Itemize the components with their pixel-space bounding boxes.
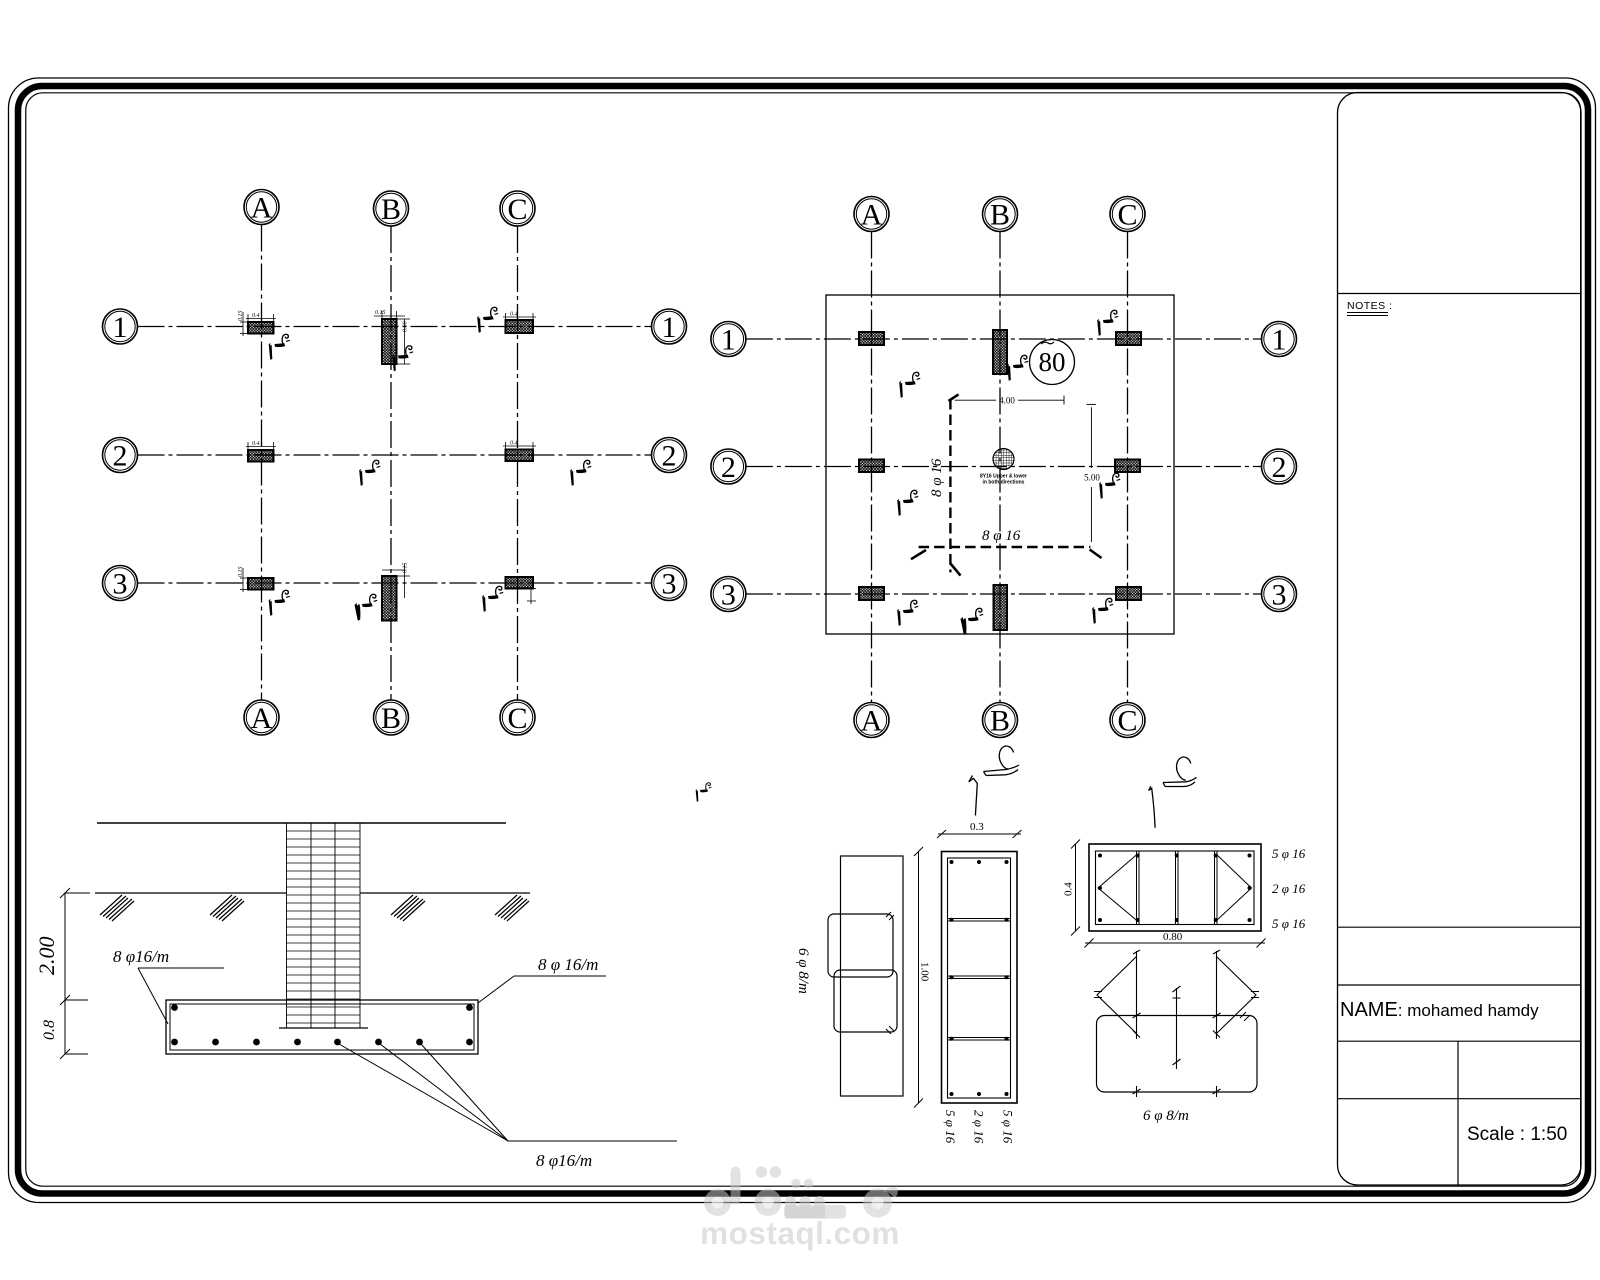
dim 0.4 above column A2 xyxy=(246,442,276,450)
detail bubble 80 xyxy=(1030,340,1075,385)
grid line 1 horizontal xyxy=(138,326,652,328)
watermark logo lam ring xyxy=(704,1189,731,1216)
section mark at B1 right plan xyxy=(1007,355,1028,380)
section mark at C3 xyxy=(482,586,503,611)
section mark at A2 right plan xyxy=(897,490,918,515)
svg-text:0.15: 0.15 xyxy=(403,563,409,574)
column section C1 stirrup xyxy=(1096,851,1255,925)
C1 divider 1 xyxy=(1136,851,1138,925)
svg-text:B: B xyxy=(381,702,401,735)
bubble 3 left xyxy=(103,566,138,601)
grid line C vertical right plan xyxy=(1127,232,1129,703)
svg-text:mostaql.com: mostaql.com xyxy=(700,1215,900,1251)
stirrup rounded rect upper xyxy=(828,914,893,977)
column A2 right plan xyxy=(859,460,884,473)
svg-text:NOTES :: NOTES : xyxy=(1347,300,1393,312)
unfolded stirrup triangle left xyxy=(1094,950,1140,1039)
column B1 left plan xyxy=(382,319,397,364)
grid line 3 horizontal right plan xyxy=(746,593,1262,595)
svg-text:1: 1 xyxy=(1272,324,1287,357)
footing outline inner xyxy=(170,1004,474,1050)
dimension line 2.00 / 0.8 xyxy=(60,888,90,1059)
column base line xyxy=(279,1027,368,1029)
section mark at A1 right plan xyxy=(899,372,920,397)
dim 0.60 right of column B1 xyxy=(397,319,411,364)
column A2 left plan xyxy=(248,450,274,462)
stirrup divider 1 xyxy=(948,918,1011,920)
bubble 2 left xyxy=(103,438,138,473)
svg-text:4.00: 4.00 xyxy=(999,396,1015,406)
svg-text:1: 1 xyxy=(721,324,736,357)
svg-text:Scale : 1:50: Scale : 1:50 xyxy=(1467,1124,1567,1145)
column section C3 outer xyxy=(942,852,1018,1104)
svg-text:0.3: 0.3 xyxy=(970,821,984,833)
section mark at C1 right plan xyxy=(1097,310,1118,335)
bubble 2 left right plan xyxy=(711,449,746,484)
bubble 1 left right plan xyxy=(711,322,746,357)
column C1 right plan xyxy=(1116,332,1141,345)
svg-text:0.4: 0.4 xyxy=(252,312,260,319)
svg-text:3: 3 xyxy=(113,568,128,601)
stirrup divider 2 xyxy=(948,975,1011,977)
lap splice plain rectangle xyxy=(841,856,904,1096)
rebar horizontal left hook xyxy=(911,550,926,559)
section mark at A2 xyxy=(359,460,380,485)
svg-text:1: 1 xyxy=(113,311,128,344)
svg-text:A: A xyxy=(861,199,883,232)
svg-text:2 φ 16: 2 φ 16 xyxy=(972,1110,987,1144)
dim 0.3 above xyxy=(937,830,1022,838)
svg-text:0.4: 0.4 xyxy=(1063,882,1075,896)
bubble C top right plan xyxy=(1110,197,1145,232)
bubble C bottom right plan xyxy=(1110,703,1145,738)
svg-text:0.60: 0.60 xyxy=(403,322,409,333)
dim 1.00 left xyxy=(914,847,923,1108)
dim 0.4 above column A1 xyxy=(246,314,276,322)
section mark at A1 xyxy=(269,334,290,359)
column B1 right plan xyxy=(993,330,1007,374)
bubble 3 right xyxy=(652,566,687,601)
bubble B bottom right plan xyxy=(983,703,1018,738)
svg-text:0.4: 0.4 xyxy=(252,440,260,447)
watermark logo qaf dots xyxy=(756,1166,767,1177)
grid line 2 horizontal xyxy=(138,454,652,456)
svg-text:3: 3 xyxy=(1272,579,1287,612)
section mark at A3 xyxy=(269,590,290,615)
svg-text:C: C xyxy=(1117,199,1137,232)
bubble 2 right xyxy=(652,438,687,473)
title block divider under top cell xyxy=(1338,293,1582,295)
title block outline xyxy=(1338,93,1582,1186)
svg-text:5 φ 16: 5 φ 16 xyxy=(943,1110,958,1144)
svg-text:C: C xyxy=(1117,705,1137,738)
bubble B top xyxy=(374,191,409,226)
bubble 1 left xyxy=(103,309,138,344)
raft foundation outline xyxy=(826,295,1174,634)
svg-text:0.4: 0.4 xyxy=(510,440,518,447)
footing outline outer xyxy=(166,1000,478,1054)
column A3 right plan xyxy=(859,587,884,600)
bubble A bottom xyxy=(244,700,279,735)
svg-text:3: 3 xyxy=(721,579,736,612)
section mark 3 at B3 xyxy=(355,594,378,620)
svg-text:2 φ 16: 2 φ 16 xyxy=(1272,881,1306,896)
bubble A top xyxy=(244,190,279,225)
section mark at B1 xyxy=(392,346,413,371)
column B3 right plan xyxy=(994,585,1008,630)
dim 4.00 xyxy=(955,396,1064,405)
footing rebar dots top xyxy=(171,1004,178,1011)
svg-text:8 φ16/m: 8 φ16/m xyxy=(536,1151,592,1170)
svg-text:8 φ 16: 8 φ 16 xyxy=(982,528,1021,544)
svg-text:C: C xyxy=(507,193,527,226)
rebar vertical bottom hook xyxy=(950,563,961,576)
bubble A bottom right plan xyxy=(854,703,889,738)
rebar dashed horizontal 8phi16 xyxy=(919,546,1091,548)
column section C3 stirrup xyxy=(948,858,1011,1098)
title block vertical divider xyxy=(1457,1041,1459,1185)
big section mark 3 below right plan xyxy=(969,746,1019,815)
rebar horizontal right hook xyxy=(1090,550,1102,559)
bubble C bottom xyxy=(500,700,535,735)
grid line C vertical xyxy=(517,226,519,700)
bubble B top right plan xyxy=(983,197,1018,232)
title block row line 3 xyxy=(1338,1040,1582,1042)
svg-text:2: 2 xyxy=(721,451,736,484)
dim 0.15 left of column A1 xyxy=(240,312,248,336)
svg-text:B: B xyxy=(990,199,1010,232)
section mark at C2 xyxy=(570,460,591,485)
watermark logo lam ascender xyxy=(731,1167,741,1205)
svg-text:1: 1 xyxy=(662,311,677,344)
column A1 right plan xyxy=(859,332,884,345)
svg-text:8 φ 16/m: 8 φ 16/m xyxy=(538,955,598,974)
svg-text:C: C xyxy=(507,702,527,735)
svg-text:5 φ 16: 5 φ 16 xyxy=(1272,916,1306,931)
stirrup divider 3 xyxy=(948,1037,1011,1039)
bubble 2 right right plan xyxy=(1262,449,1297,484)
bubble 1 right right plan xyxy=(1262,322,1297,357)
watermark logo meem ring xyxy=(863,1189,892,1218)
svg-text:3: 3 xyxy=(662,568,677,601)
dim 0.15 left of column A3 xyxy=(240,568,248,592)
svg-text:2: 2 xyxy=(113,440,128,473)
dim 0.80 below C1 xyxy=(1085,939,1266,948)
unfolded stirrup rounded rect xyxy=(1097,1016,1258,1093)
svg-text:6 φ 8/m: 6 φ 8/m xyxy=(795,948,811,994)
section mark 3 at B3 right plan xyxy=(961,608,984,634)
grid line B vertical right plan xyxy=(999,232,1001,703)
big section mark 1 below right plan xyxy=(1149,757,1197,828)
grid line B vertical xyxy=(390,226,392,700)
svg-text:6 φ 8/m: 6 φ 8/m xyxy=(1143,1108,1189,1124)
svg-text:0.15: 0.15 xyxy=(375,310,386,316)
column shaft grid hatch xyxy=(287,823,361,1028)
rebar dashed vertical 8phi16 xyxy=(949,399,951,572)
column C2 left plan xyxy=(506,450,534,462)
section mark at C1 xyxy=(477,307,498,332)
soil hatch cluster 1 xyxy=(100,895,134,921)
grid line A vertical xyxy=(261,225,263,701)
column C3 left plan xyxy=(506,577,534,589)
svg-text:80: 80 xyxy=(1039,347,1066,377)
column C3 right plan xyxy=(1116,587,1141,600)
svg-text:B: B xyxy=(990,705,1010,738)
svg-text:8 φ16/m: 8 φ16/m xyxy=(113,947,169,966)
svg-text:A: A xyxy=(251,702,273,735)
C1 diagonal brace left xyxy=(1098,854,1138,921)
svg-text:B: B xyxy=(381,193,401,226)
grid line 2 horizontal right plan xyxy=(746,466,1262,468)
pile hatched circle center xyxy=(993,449,1014,470)
svg-text:5 φ 16: 5 φ 16 xyxy=(1001,1110,1016,1144)
column C1 left plan xyxy=(506,320,534,333)
column C2 right plan xyxy=(1115,460,1140,473)
svg-text:A: A xyxy=(861,705,883,738)
svg-text:2.00: 2.00 xyxy=(34,937,59,976)
svg-text:5 φ 16: 5 φ 16 xyxy=(1272,846,1306,861)
soil line right xyxy=(360,892,530,894)
unfolded tie middle vertical xyxy=(1173,986,1181,1069)
dim small right of column C3 xyxy=(527,587,536,604)
title block row line 4 xyxy=(1338,1098,1582,1100)
dim 0.4 left of C1 xyxy=(1071,840,1080,936)
C1 divider 2 xyxy=(1175,851,1177,925)
dim 0.60 right of column B3 xyxy=(382,564,410,598)
watermark logo qaf ring xyxy=(755,1189,782,1216)
svg-text:A: A xyxy=(251,192,273,225)
svg-text:0.8: 0.8 xyxy=(41,1020,58,1040)
title block row line 2 xyxy=(1338,984,1582,986)
column B3 left plan xyxy=(382,576,397,621)
bubble B bottom xyxy=(374,700,409,735)
soil hatch cluster 4 xyxy=(495,895,529,921)
watermark logo seen-teh band xyxy=(785,1196,825,1218)
dim 0.4 above column C2 xyxy=(503,442,536,450)
svg-text:8 φ 16: 8 φ 16 xyxy=(929,458,945,497)
bubble A top right plan xyxy=(854,197,889,232)
rebar vertical top hook xyxy=(949,394,959,401)
dim 0.15 above column B1 xyxy=(374,311,405,321)
svg-text:2: 2 xyxy=(1272,451,1287,484)
svg-text:0.80: 0.80 xyxy=(1163,931,1183,943)
soil hatch cluster 3 xyxy=(391,895,425,921)
section mark at C2 right plan xyxy=(1099,473,1120,498)
dim 5.00 xyxy=(1087,404,1097,542)
svg-text:1.00: 1.00 xyxy=(919,962,931,982)
svg-text:NAME: mohamed hamdy: NAME: mohamed hamdy xyxy=(1340,999,1539,1021)
soil line left xyxy=(95,892,287,894)
grid line A vertical right plan xyxy=(871,232,873,703)
svg-text:0.4: 0.4 xyxy=(510,311,518,318)
svg-text:0.15: 0.15 xyxy=(238,567,244,578)
lone small mark between plans xyxy=(696,783,712,802)
dim 0.4 above column C1 xyxy=(503,313,536,321)
C1 diagonal brace right xyxy=(1216,854,1252,921)
section mark at A3 right plan xyxy=(897,600,918,625)
rebar dots column C3 xyxy=(950,860,1009,1096)
svg-text:5.00: 5.00 xyxy=(1084,473,1100,483)
footing rebar dots bottom row xyxy=(171,1039,178,1046)
svg-text:2: 2 xyxy=(662,440,677,473)
unfolded stirrup triangle right xyxy=(1213,950,1259,1039)
C1 divider 3 xyxy=(1214,851,1216,925)
grid line 1 horizontal right plan xyxy=(746,338,1262,340)
rebar dots column C1 xyxy=(1098,854,1252,923)
svg-text:in both directions: in both directions xyxy=(983,480,1025,486)
soil hatch cluster 2 xyxy=(210,895,244,921)
title block row line 1 xyxy=(1338,926,1582,928)
bubble 3 left right plan xyxy=(711,577,746,612)
bubble 3 right right plan xyxy=(1262,577,1297,612)
section mark at C3 right plan xyxy=(1092,598,1113,623)
column section C1 outer xyxy=(1089,844,1261,931)
ground line xyxy=(97,822,506,824)
column A1 left plan xyxy=(248,322,274,334)
svg-text:0.15: 0.15 xyxy=(238,311,244,322)
bubble 1 right xyxy=(652,309,687,344)
stirrup rounded rect lower xyxy=(834,970,897,1032)
bubble C top xyxy=(500,191,535,226)
grid line 3 horizontal xyxy=(138,582,652,584)
tick marks on stirrup rect xyxy=(1133,1010,1221,1097)
column A3 left plan xyxy=(248,578,274,590)
